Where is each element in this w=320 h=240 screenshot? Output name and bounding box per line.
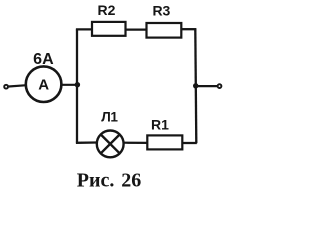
terminal left: [4, 85, 8, 89]
svg-text:6A: 6A: [33, 51, 54, 68]
resistor R2: [92, 22, 126, 36]
lamp L1: [97, 131, 124, 158]
resistor R1: [147, 135, 182, 149]
wire left bus: [76, 29, 78, 142]
terminal right: [218, 84, 222, 88]
svg-text:R2: R2: [98, 2, 116, 18]
svg-text:R1: R1: [151, 117, 169, 133]
wire: [181, 28, 196, 30]
svg-text:26: 26: [121, 170, 141, 192]
caption Fig 26: [77, 170, 141, 192]
wire right bus: [195, 29, 196, 143]
wire: [124, 142, 147, 144]
wire: [9, 85, 25, 86]
wire: [126, 28, 147, 30]
node right junction: [193, 83, 198, 88]
wire: [182, 142, 197, 144]
resistor R3: [147, 23, 182, 38]
ammeter A: [26, 66, 62, 102]
svg-text:A: A: [38, 77, 49, 94]
wire: [76, 141, 97, 144]
wire: [76, 28, 93, 30]
wire: [196, 85, 217, 87]
svg-text:R3: R3: [152, 2, 170, 18]
wire: [61, 84, 77, 86]
svg-text:Рис.: Рис.: [77, 170, 115, 192]
node left junction: [75, 82, 80, 87]
svg-text:Л1: Л1: [101, 110, 118, 125]
